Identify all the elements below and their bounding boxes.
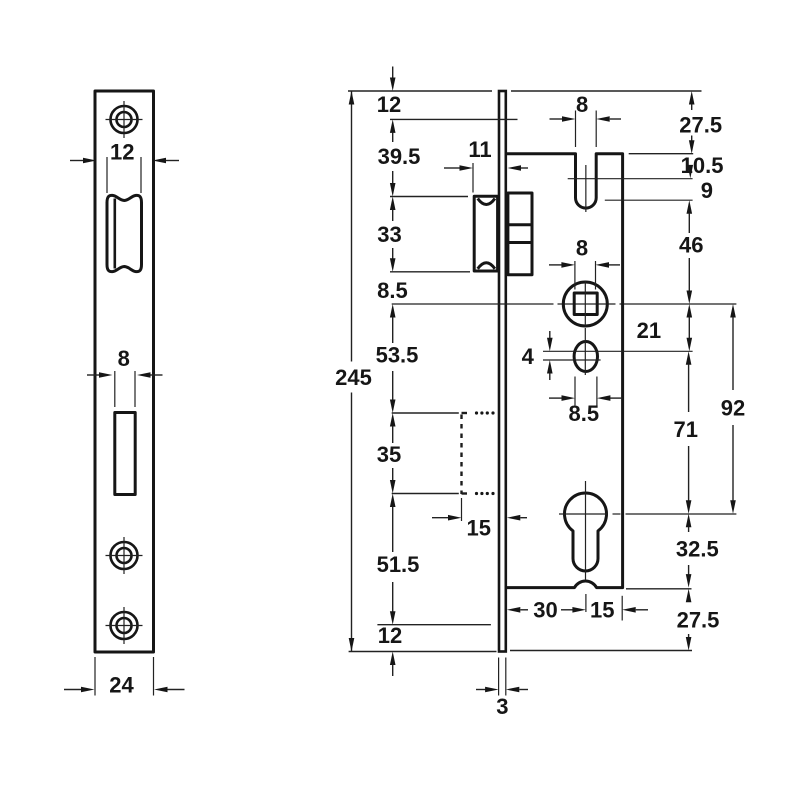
dim 245 overall height — [335, 91, 372, 652]
dim 8 deadbolt slot width — [87, 346, 163, 407]
svg-text:71: 71 — [674, 417, 698, 442]
svg-text:15: 15 — [590, 598, 614, 623]
svg-text:8: 8 — [118, 346, 130, 371]
svg-text:32.5: 32.5 — [676, 537, 719, 562]
svg-text:15: 15 — [466, 516, 490, 541]
faceplate side view — [499, 91, 506, 652]
svg-text:11: 11 — [468, 137, 491, 162]
dim 33 latch height — [377, 197, 470, 272]
spindle hole square — [563, 281, 607, 326]
svg-text:12: 12 — [110, 140, 134, 165]
svg-text:30: 30 — [533, 598, 557, 623]
svg-text:9: 9 — [701, 178, 713, 203]
label 9 — [701, 178, 713, 203]
svg-text:27.5: 27.5 — [679, 113, 722, 138]
svg-text:92: 92 — [721, 395, 745, 420]
svg-text:8: 8 — [576, 235, 588, 260]
top extension line overall — [348, 90, 702, 92]
svg-text:39.5: 39.5 — [378, 144, 421, 169]
svg-text:33: 33 — [377, 222, 401, 247]
dim 24 faceplate width — [64, 657, 185, 698]
dim 35 dashed box height — [377, 413, 459, 494]
label 10.5 with arrow — [681, 153, 724, 178]
dim 92 — [721, 304, 745, 514]
dim 39.5 — [378, 119, 468, 196]
dim 32.5 — [676, 514, 719, 588]
dim 8 U-notch width — [550, 92, 622, 147]
svg-text:21: 21 — [637, 318, 661, 343]
dim 12 latch cutout width — [70, 140, 179, 194]
svg-text:8.5: 8.5 — [569, 401, 600, 426]
bottom extension line overall — [349, 651, 692, 652]
dim 12 top offset — [377, 67, 518, 120]
U-notch centre line — [585, 165, 587, 212]
screw hole middle — [106, 537, 143, 574]
case top right extension — [629, 153, 694, 155]
dim 27.5 bottom — [677, 589, 720, 651]
reference line 4 upper — [543, 350, 693, 352]
latch bolt side view — [474, 196, 497, 271]
dim 3 faceplate thickness — [476, 658, 528, 720]
dim 46 — [679, 200, 703, 304]
svg-text:46: 46 — [679, 232, 703, 257]
reference line 4 lower — [543, 359, 601, 361]
svg-text:35: 35 — [377, 442, 401, 467]
dim 4 — [522, 331, 553, 380]
dashed deadbolt box — [462, 411, 495, 495]
dim 27.5 top — [679, 91, 722, 154]
svg-text:3: 3 — [496, 694, 508, 719]
screw hole top — [106, 101, 143, 138]
svg-text:53.5: 53.5 — [376, 343, 419, 368]
svg-text:27.5: 27.5 — [677, 608, 720, 633]
dim 11 latch projection — [444, 137, 528, 193]
spindle centre line horizontal — [392, 303, 737, 305]
latch bevel edge line — [114, 199, 117, 269]
svg-text:245: 245 — [335, 365, 372, 390]
dim 53.5 — [376, 304, 459, 413]
svg-text:12: 12 — [377, 92, 401, 117]
svg-text:4: 4 — [522, 344, 535, 369]
svg-text:24: 24 — [109, 673, 134, 698]
label 8.5 — [377, 278, 408, 303]
euro profile cylinder hole — [559, 481, 736, 580]
follower box behind faceplate — [508, 193, 532, 275]
dim 8.5 pin hole — [549, 377, 623, 427]
dim 15 dashed box depth — [432, 498, 527, 541]
case bottom right extension — [626, 588, 692, 590]
lock case outline with top U-notch and bottom notch — [507, 154, 623, 588]
svg-text:10.5: 10.5 — [681, 153, 724, 178]
faceplate front view outline — [95, 91, 154, 652]
locking pin hole — [574, 328, 597, 375]
latch cutout — [107, 195, 142, 271]
dim 30 backset and 15 — [507, 594, 648, 623]
screw hole bottom — [106, 607, 143, 644]
dim 71 — [674, 351, 698, 514]
svg-text:51.5: 51.5 — [377, 552, 420, 577]
dim 12 bottom offset — [378, 623, 402, 676]
svg-text:12: 12 — [378, 623, 402, 648]
dim 8 spindle square — [549, 235, 620, 289]
reference line 9 — [605, 199, 693, 201]
deadbolt slot — [115, 413, 135, 495]
svg-text:8.5: 8.5 — [377, 278, 408, 303]
svg-text:8: 8 — [576, 92, 588, 117]
dim 21 — [637, 304, 692, 351]
dim 51.5 — [377, 494, 491, 625]
reference line 10.5 — [568, 178, 693, 180]
